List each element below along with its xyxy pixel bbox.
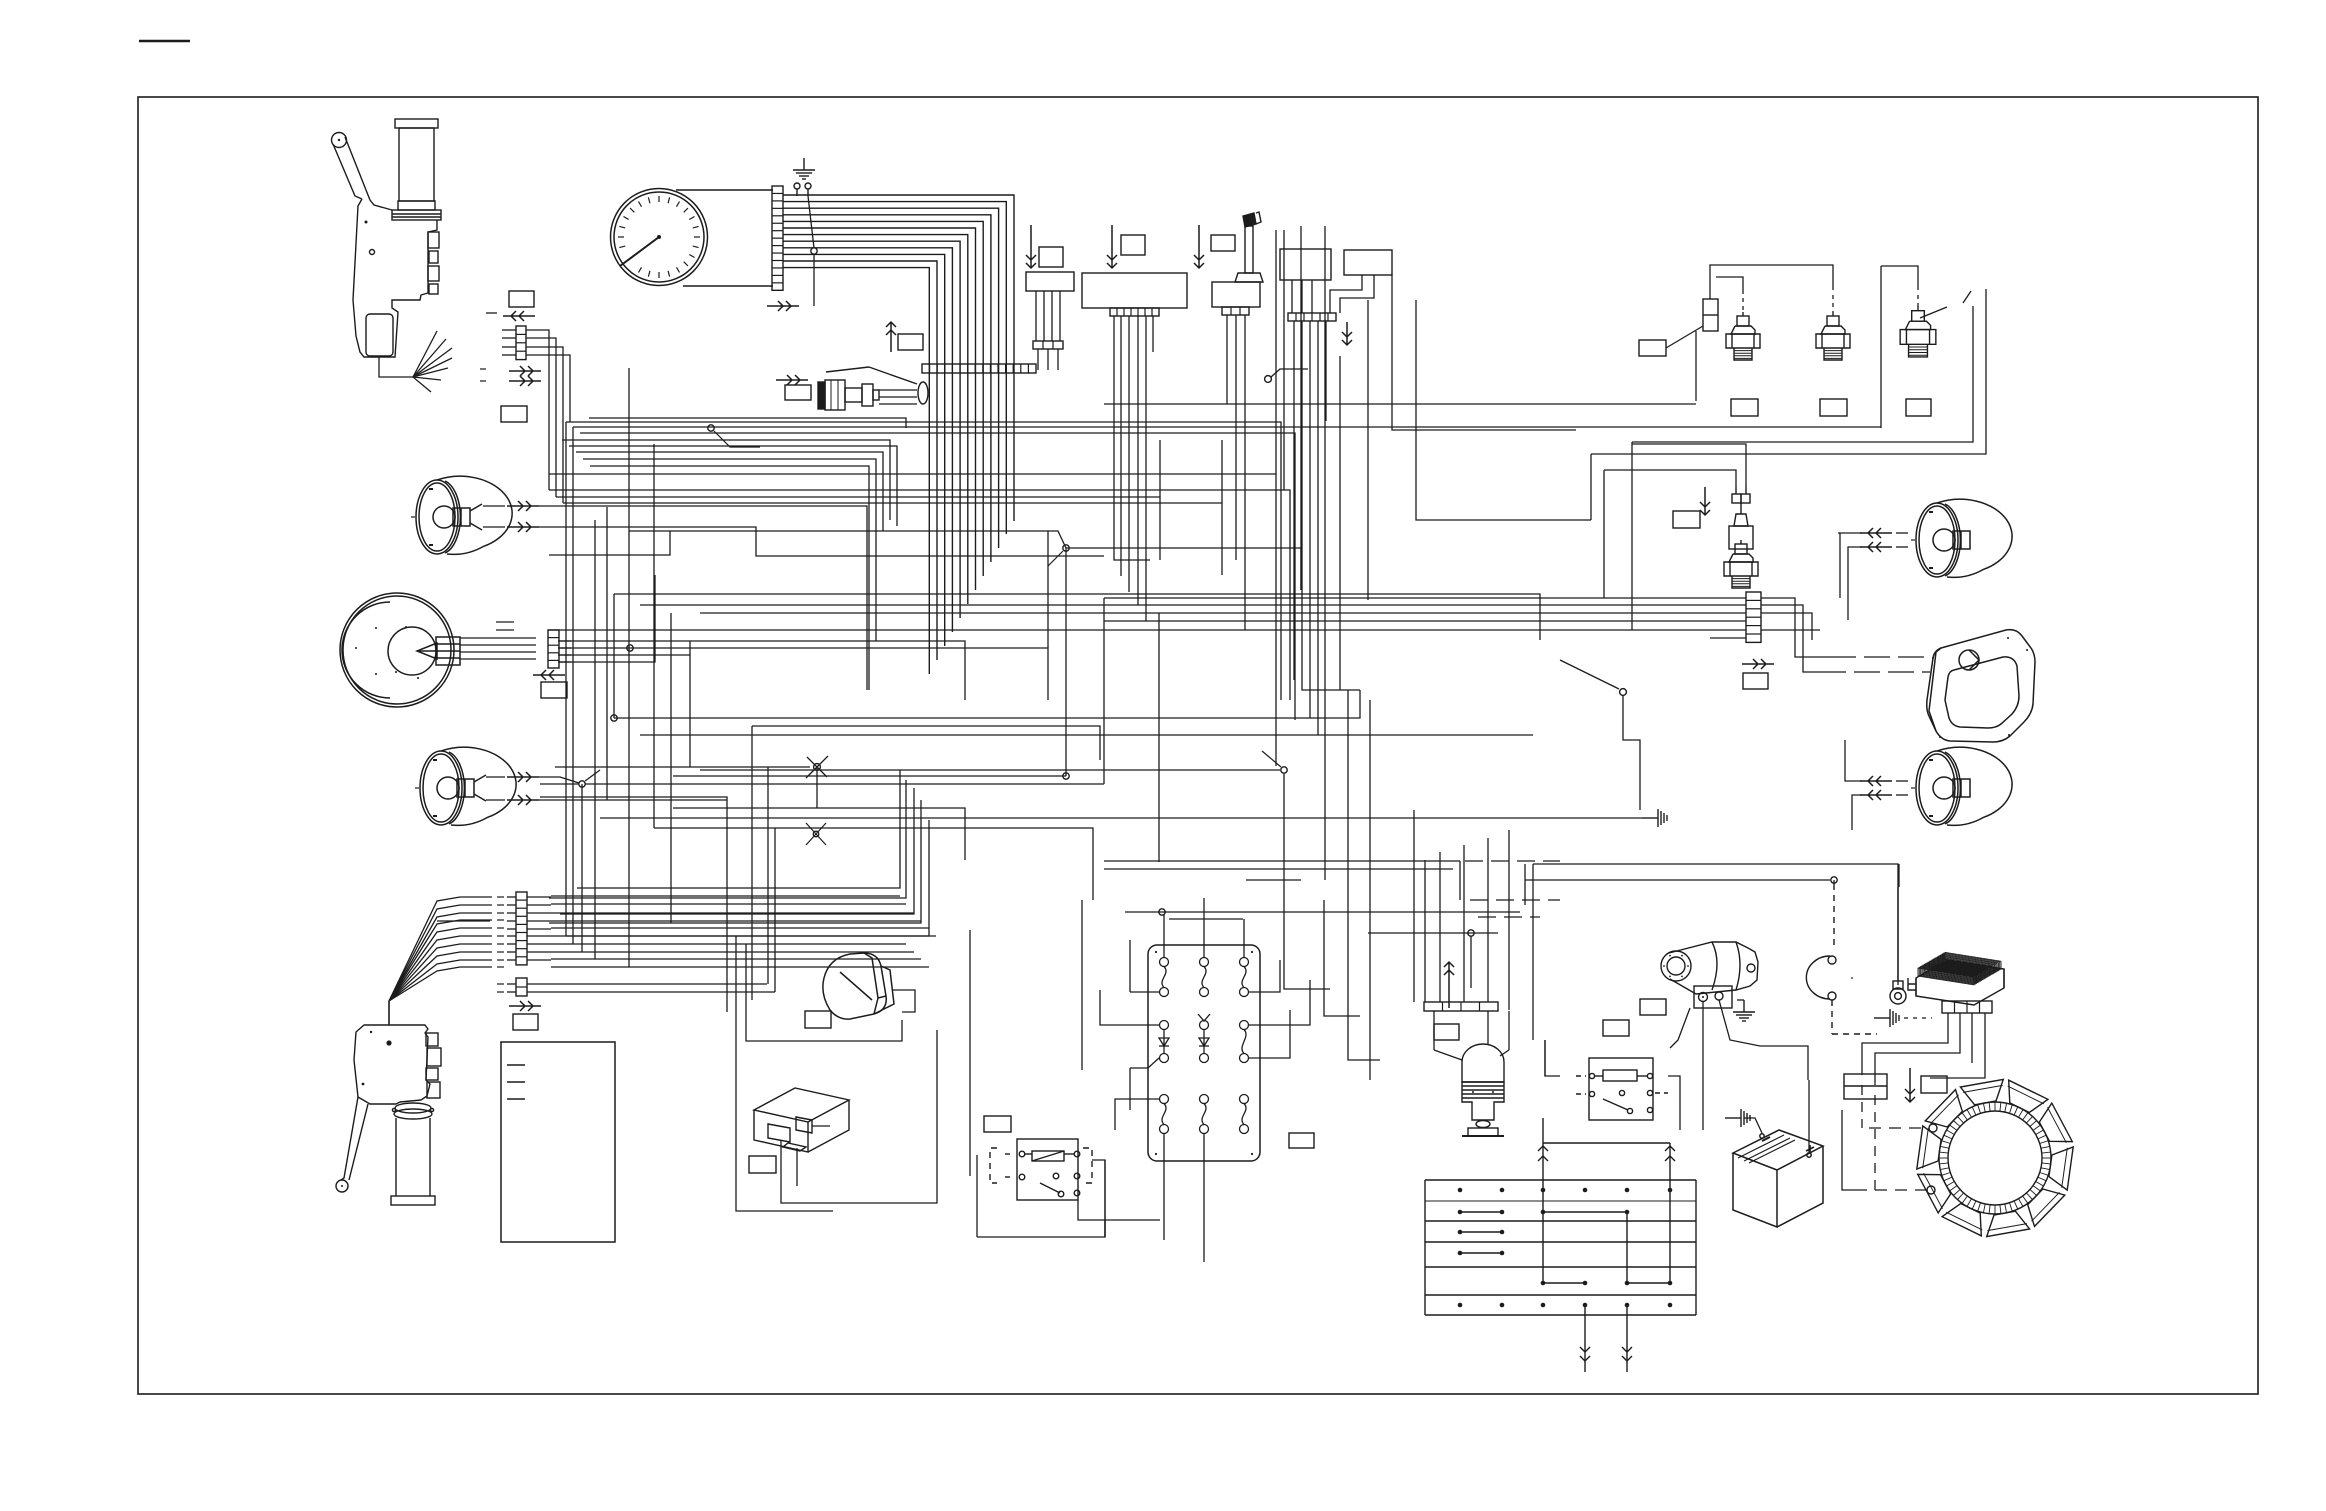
dashed trunk segments: [1465, 861, 1560, 917]
junction X2 diag b: [806, 823, 826, 845]
start switch box: [1344, 250, 1392, 275]
coil wires: [1434, 1011, 1509, 1060]
right lower harness: [1082, 861, 1899, 1237]
main harness inline connector: [922, 364, 1036, 373]
ignition key: [1235, 212, 1263, 282]
regulator fins: [1918, 952, 2001, 984]
horn wires: [746, 944, 915, 1041]
left front signal wires: [483, 506, 1104, 690]
horn: [823, 953, 894, 1019]
sensor loop wiring: [1591, 265, 1986, 454]
starter label 2: [1603, 1020, 1629, 1036]
dash marks column: [497, 897, 504, 992]
alternator stator: [1917, 1079, 2073, 1236]
starter label 1: [1640, 999, 1666, 1015]
speedometer panel terminals: [794, 183, 811, 196]
oil pressure sender: [1729, 487, 1753, 549]
label box F: [898, 334, 923, 350]
arrow pair upper: [509, 366, 541, 376]
sensor label 3: [1906, 399, 1931, 416]
fan stub ends: [437, 897, 492, 967]
sender wires up: [1604, 444, 1746, 487]
dash marks: [480, 369, 486, 381]
junction 4 branch: [585, 770, 600, 781]
headlight wires: [460, 622, 536, 659]
connector A right wires: [526, 330, 570, 503]
lr signal arrow a: [507, 772, 539, 782]
feed arrow 3: [1194, 225, 1204, 268]
starter motor: [1661, 942, 1758, 1008]
junction on speedometer feed: [811, 248, 817, 254]
ignition module: [754, 1088, 849, 1152]
center relay wires: [977, 1155, 1160, 1237]
starter wires: [1670, 1000, 1808, 1110]
ignition coil: [1462, 1044, 1504, 1136]
junction right harness: [1620, 689, 1627, 696]
label box A: [509, 291, 534, 307]
battery ground: [1725, 1109, 1750, 1127]
terminal board arrows: [1538, 1118, 1675, 1372]
junction 1 branch: [714, 431, 760, 447]
junction 9: [1159, 909, 1165, 915]
center relay label: [984, 1116, 1011, 1132]
module wires: [736, 930, 1105, 1237]
wire terminal to junction: [808, 196, 814, 248]
capacitor label: [1921, 1076, 1947, 1093]
junction 5 branch: [1048, 551, 1063, 566]
label box B: [501, 406, 527, 422]
harness continuation arrow: [767, 301, 799, 311]
connector B2 2-way: [516, 978, 527, 996]
neutral switch: [1900, 307, 1936, 357]
headlight connector right wires: [559, 641, 571, 662]
legend lines: [507, 1065, 525, 1099]
junction X2: [813, 831, 819, 837]
oil sender hex body: [1724, 540, 1758, 588]
ground above speedometer: [793, 158, 815, 179]
junction ignition feeds: [1265, 376, 1272, 383]
sensor label 2: [1820, 399, 1847, 416]
connector B2 stubs: [507, 984, 551, 992]
junction X: [814, 764, 821, 771]
sensor label 1: [1731, 399, 1758, 416]
sensor area label: [1639, 340, 1666, 356]
coil label box: [785, 385, 811, 400]
lf signal arrow a: [507, 501, 539, 511]
junction 8: [1831, 877, 1837, 883]
junction 2: [627, 645, 633, 651]
3-way connector wires down: [1038, 349, 1058, 370]
speedometer: [611, 189, 774, 287]
speedometer harness bundle: [783, 195, 1014, 674]
sender label: [1673, 511, 1700, 528]
oil pressure switch 2: [1816, 312, 1850, 360]
speedometer connector strip: [772, 186, 783, 290]
ignition switch comb: [1222, 307, 1249, 315]
headlight label: [541, 682, 567, 698]
junction 7: [1281, 767, 1287, 773]
starter ground: [1733, 1000, 1755, 1021]
starter relay wires: [1545, 1040, 1680, 1110]
clutch control switch housing: [336, 1025, 441, 1205]
feed arrow 2: [1107, 225, 1117, 268]
regulator wires: [1862, 1013, 1985, 1190]
capacitor arrow: [1905, 1068, 1915, 1102]
junction 5: [1063, 545, 1069, 551]
right connector arrow: [1742, 659, 1774, 669]
right rear signal wires: [1845, 740, 1908, 830]
signal arrows 2a: [1860, 776, 1892, 786]
ground right middle: [1642, 809, 1667, 827]
3-way connector below accessory box: [1033, 341, 1063, 349]
connector B arrow: [509, 1001, 541, 1011]
junction X2 diag a: [806, 823, 826, 845]
right rear turn signal: [1911, 747, 2012, 825]
accessory box wires down: [1036, 291, 1060, 341]
connector column B: [516, 892, 527, 965]
junction 3: [611, 715, 617, 721]
lr signal arrow b: [507, 795, 539, 805]
border frame: [138, 97, 2258, 1394]
junction branch: [1271, 369, 1308, 377]
junction 4: [579, 781, 585, 787]
label box C: [1039, 247, 1063, 267]
title underline mark: [139, 40, 190, 43]
spark coil inline: [818, 367, 928, 410]
battery: [1733, 1130, 1823, 1227]
console connector comb: [1110, 308, 1159, 316]
headlight: [340, 593, 460, 707]
ignition switch wires down: [1227, 315, 1245, 352]
front control harness fan: [379, 331, 452, 392]
circuit breaker panel: [1148, 945, 1260, 1161]
horn label: [805, 1011, 831, 1028]
battery wires: [1744, 1080, 1809, 1152]
right connector wires: [548, 598, 1830, 672]
coil up arrow: [1444, 962, 1454, 1008]
tail lamp: [1927, 630, 2035, 742]
module label: [749, 1156, 776, 1173]
fuse panel label: [1289, 1133, 1314, 1148]
right console wires to comb: [1292, 280, 1312, 313]
left front turn signal: [411, 476, 512, 554]
junction 7 branch: [1262, 751, 1281, 767]
ignition switch body: [1212, 282, 1260, 307]
accessory connector box: [1026, 272, 1074, 291]
main harness nest: [540, 226, 1898, 1080]
coil connector comb: [1424, 1002, 1498, 1011]
capacitor: [1844, 1074, 1887, 1099]
up feed arrow mid: [886, 322, 896, 352]
signal arrows 1b: [1860, 542, 1892, 552]
handlebar switch console: [1082, 273, 1187, 308]
right inline connector: [1746, 592, 1761, 642]
right front turn signal: [1911, 499, 2012, 577]
connector A 4-way: [516, 326, 526, 360]
coil label: [1434, 1024, 1459, 1040]
starter relay: [1576, 1058, 1668, 1120]
voltage regulator: [1908, 960, 2004, 1005]
console wires down: [1114, 316, 1153, 352]
signal arrows 1a: [1860, 528, 1892, 538]
start switch wires: [1330, 275, 1374, 313]
clutch control harness fan: [389, 897, 460, 1025]
junction drop wire: [1623, 695, 1640, 810]
feed arrow 4: [1342, 322, 1352, 345]
sender feed arrow: [1700, 487, 1710, 515]
feed arrow 1: [1026, 225, 1036, 268]
right connector label: [1743, 673, 1768, 689]
label pointer line: [1666, 326, 1703, 348]
right front signal wires: [1838, 533, 1908, 620]
headlight arrow: [533, 670, 565, 680]
right console comb: [1288, 313, 1336, 321]
connector A arrow: [503, 311, 535, 321]
center relay: [990, 1139, 1092, 1200]
lf signal arrow b: [507, 522, 539, 532]
oil pressure switch 1: [1726, 312, 1760, 360]
coil wires right: [879, 390, 917, 404]
regulator connector: [1942, 1001, 1992, 1013]
headlight connector: [548, 630, 559, 668]
stator wires: [1842, 1110, 1929, 1190]
long ground wire: [600, 817, 1642, 819]
right switch console: [1280, 249, 1331, 280]
fuse elements: [1155, 951, 1253, 1155]
sensor inline connector: [1703, 299, 1718, 331]
junction 1: [708, 425, 714, 431]
fuse panel wires: [1100, 898, 1310, 1262]
label box D: [1121, 235, 1145, 255]
regulator ground: [1874, 1009, 1899, 1027]
ring terminal: [1890, 887, 1906, 1004]
junction 6: [1063, 773, 1069, 779]
legend note box: [501, 1042, 615, 1242]
ignition switch contact: [1806, 884, 1877, 1034]
left rear signal wires: [486, 777, 727, 800]
fuse area trunks: [1125, 774, 1520, 1060]
wire junction down: [813, 254, 815, 306]
connector A stubs: [486, 313, 516, 355]
front brake master cylinder and switch housing: [332, 119, 442, 357]
tail lamp feed wires: [1820, 657, 1930, 672]
coil feed arrow: [776, 375, 808, 385]
connector B left stubs: [507, 897, 551, 960]
label box E: [1211, 235, 1235, 251]
junction diagonal: [1560, 660, 1619, 689]
connector B label: [513, 1014, 538, 1030]
signal arrows 2b: [1860, 790, 1892, 800]
terminal board: [1425, 1180, 1696, 1315]
junction 10: [1468, 930, 1474, 936]
right comb wires down: [1294, 321, 1326, 356]
arrow pair lower: [509, 376, 541, 386]
left rear turn signal: [415, 747, 516, 825]
regulator ground dashes: [1904, 1017, 1932, 1019]
